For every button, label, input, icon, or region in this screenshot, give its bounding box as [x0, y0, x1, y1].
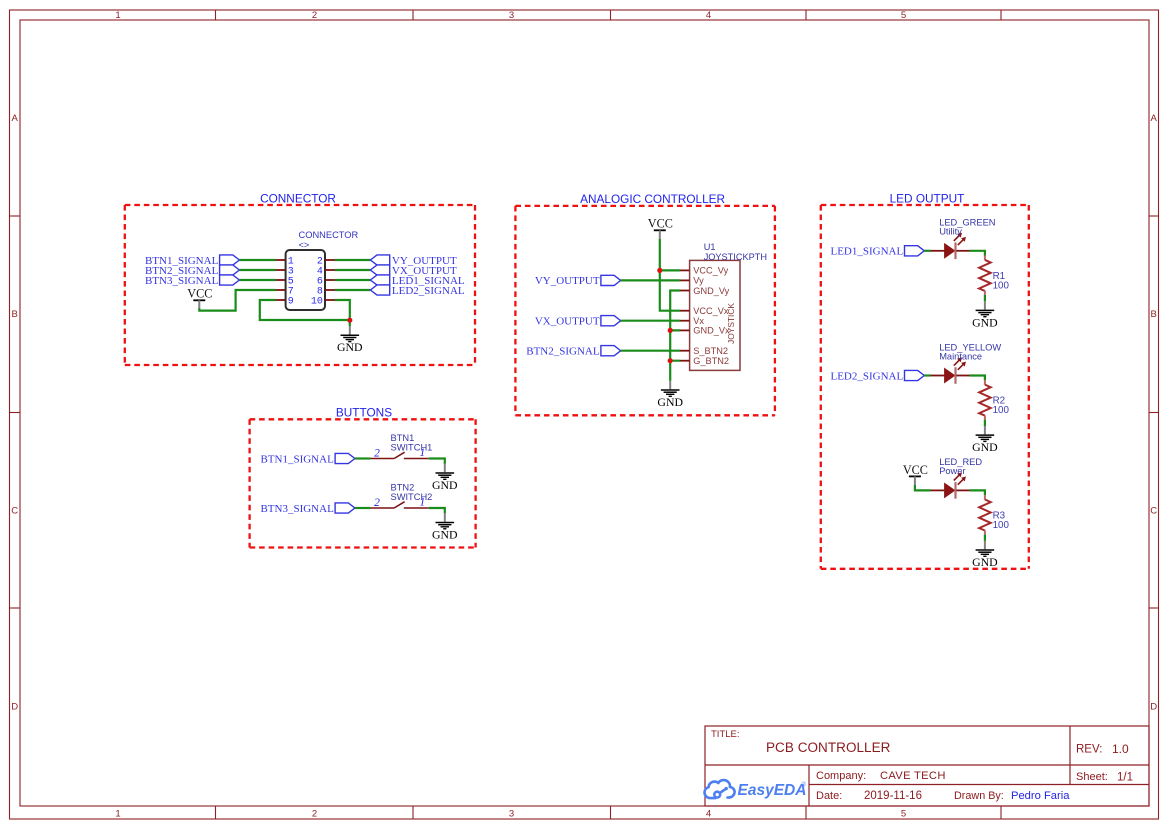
- svg-text:Vx: Vx: [693, 316, 704, 326]
- pin 1: [276, 257, 294, 268]
- power VCC (connector): [187, 287, 212, 309]
- svg-text:4: 4: [706, 809, 711, 820]
- svg-text:B: B: [1151, 309, 1157, 320]
- svg-text:1: 1: [115, 10, 120, 21]
- wire BTN3_SIGNAL to switch: [355, 507, 371, 509]
- svg-text:2019-11-16: 2019-11-16: [864, 790, 922, 802]
- svg-text:4: 4: [706, 10, 711, 21]
- wire LED to R3: [970, 490, 985, 495]
- wire switch to GND: [429, 508, 445, 513]
- svg-text:2: 2: [374, 448, 380, 460]
- svg-text:2: 2: [374, 497, 380, 509]
- svg-text:100: 100: [993, 280, 1010, 291]
- svg-text:BTN2_SIGNAL: BTN2_SIGNAL: [526, 346, 600, 358]
- svg-text:1: 1: [420, 496, 426, 508]
- section box ANALOGIC CONTROLLER: [515, 192, 775, 415]
- pin VCC_Vy: [680, 266, 729, 276]
- net flag LED2_SIGNAL: [370, 285, 464, 297]
- diode LED LED_RED: [931, 457, 983, 498]
- wire LED to R2: [970, 376, 985, 381]
- ground GND (connector): [337, 326, 363, 354]
- svg-text:GND_Vy: GND_Vy: [693, 286, 729, 296]
- svg-text:B: B: [12, 309, 18, 320]
- wire R1 to GND: [984, 295, 986, 301]
- resistor R1 100: [979, 256, 1009, 296]
- connector CONNECTOR 2x5 header: [286, 230, 359, 310]
- svg-text:BTN3_SIGNAL: BTN3_SIGNAL: [260, 503, 334, 515]
- junction: [347, 318, 352, 323]
- svg-text:1.0: 1.0: [1112, 742, 1129, 756]
- svg-text:3: 3: [509, 10, 514, 21]
- net flag BTN2_SIGNAL: [526, 346, 620, 358]
- svg-text:PCB CONTROLLER: PCB CONTROLLER: [766, 740, 891, 755]
- power VCC (analogic): [648, 217, 673, 239]
- wire BTN1_SIGNAL to switch: [355, 457, 371, 459]
- svg-text:ANALOGIC CONTROLLER: ANALOGIC CONTROLLER: [580, 192, 725, 206]
- svg-text:5: 5: [901, 809, 906, 820]
- junction VCC_Vy: [657, 268, 662, 273]
- wire BTN2_SIGNAL to pin: [239, 269, 275, 271]
- wire R3 to GND: [984, 535, 986, 541]
- wire R2 to GND: [984, 420, 986, 426]
- pin 9: [276, 297, 294, 308]
- svg-text:Vy: Vy: [693, 276, 704, 286]
- pin GND_Vx: [680, 326, 730, 336]
- pin Vx: [680, 316, 704, 326]
- section box BUTTONS: [250, 405, 476, 547]
- svg-text:<>: <>: [299, 240, 310, 250]
- svg-text:3: 3: [509, 809, 514, 820]
- svg-text:D: D: [1150, 702, 1157, 713]
- diode LED LED_YELLOW: [931, 342, 1002, 384]
- wire VY_OUTPUT: [621, 279, 680, 281]
- svg-text:U1: U1: [704, 242, 716, 252]
- ground GND (R2): [972, 426, 998, 454]
- svg-text:1/1: 1/1: [1117, 772, 1133, 784]
- svg-text:Utility: Utility: [939, 227, 962, 237]
- pin 2: [317, 257, 335, 268]
- section box LED OUTPUT: [821, 192, 1029, 569]
- svg-text:VCC_Vy: VCC_Vy: [693, 266, 728, 276]
- ground GND (button 2): [432, 513, 458, 541]
- pin 10: [311, 297, 335, 308]
- svg-text:D: D: [11, 702, 18, 713]
- net flag BTN3_SIGNAL: [260, 503, 354, 515]
- svg-text:2: 2: [312, 10, 317, 21]
- wire GND_Vy to GND rail: [670, 291, 680, 381]
- wire LED2_SIGNAL to LED: [924, 374, 930, 376]
- pin 4: [317, 267, 335, 278]
- net flag BTN3_SIGNAL: [145, 275, 239, 287]
- wire VCC to pin 7: [199, 290, 275, 311]
- wire pin to VY_OUTPUT: [335, 259, 370, 261]
- svg-text:LED1_SIGNAL: LED1_SIGNAL: [830, 246, 903, 258]
- svg-text:A: A: [12, 113, 19, 124]
- net flag LED1_SIGNAL: [830, 246, 924, 258]
- wire pin to LED1_SIGNAL: [335, 279, 370, 281]
- svg-text:JOYSTICKPTH: JOYSTICKPTH: [704, 252, 767, 262]
- wire pin to LED2_SIGNAL: [335, 289, 370, 291]
- ground GND (R3): [972, 541, 998, 569]
- svg-text:BUTTONS: BUTTONS: [336, 405, 392, 419]
- pin 7: [276, 287, 294, 298]
- wire pin to VX_OUTPUT: [335, 269, 370, 271]
- section box CONNECTOR: [125, 192, 475, 366]
- svg-text:SWITCH1: SWITCH1: [391, 443, 433, 453]
- ground GND (analogic): [657, 381, 683, 409]
- svg-text:BTN1: BTN1: [391, 433, 415, 443]
- svg-text:G_BTN2: G_BTN2: [693, 356, 729, 366]
- resistor R2 100: [979, 380, 1009, 420]
- svg-text:100: 100: [993, 405, 1010, 416]
- net flag VX_OUTPUT: [370, 265, 457, 277]
- net flag BTN1_SIGNAL: [260, 453, 354, 465]
- svg-text:Company:: Company:: [816, 770, 866, 782]
- svg-text:TITLE:: TITLE:: [711, 729, 740, 740]
- svg-text:VX_OUTPUT: VX_OUTPUT: [535, 316, 600, 328]
- svg-text:CONNECTOR: CONNECTOR: [260, 192, 336, 206]
- svg-text:Pedro Faria: Pedro Faria: [1011, 790, 1070, 802]
- wire BTN2_SIGNAL: [621, 350, 680, 352]
- wire BTN1_SIGNAL to pin: [239, 259, 275, 261]
- svg-text:REV:: REV:: [1076, 744, 1102, 756]
- junction G_BTN2: [668, 358, 673, 363]
- wire LED1_SIGNAL to LED: [924, 250, 930, 252]
- svg-text:2: 2: [312, 809, 317, 820]
- net flag BTN2_SIGNAL: [145, 265, 239, 277]
- wire pin 9 to GND: [260, 300, 350, 320]
- power VCC (led red): [903, 463, 928, 485]
- pin G_BTN2: [680, 356, 729, 366]
- svg-text:S_BTN2: S_BTN2: [693, 346, 728, 356]
- svg-text:C: C: [1150, 506, 1157, 517]
- wire BTN3_SIGNAL to pin: [239, 279, 275, 281]
- svg-text:A: A: [1151, 113, 1158, 124]
- svg-text:VY_OUTPUT: VY_OUTPUT: [535, 275, 600, 287]
- pin 8: [317, 287, 335, 298]
- pin 5: [276, 277, 294, 288]
- ground GND (R1): [972, 301, 998, 329]
- wire VX_OUTPUT: [621, 320, 680, 322]
- svg-text:CAVE TECH: CAVE TECH: [880, 770, 946, 782]
- net flag LED2_SIGNAL: [830, 370, 924, 382]
- net flag LED1_SIGNAL: [370, 275, 464, 287]
- pin VCC_Vx: [680, 306, 729, 316]
- svg-text:BTN2: BTN2: [391, 483, 415, 493]
- svg-text:5: 5: [901, 10, 906, 21]
- switch SWITCH2: [370, 483, 432, 510]
- svg-text:BTN3_SIGNAL: BTN3_SIGNAL: [145, 275, 219, 287]
- pin Vy: [680, 276, 704, 286]
- pin 3: [276, 267, 294, 278]
- svg-text:EasyEDA: EasyEDA: [738, 782, 807, 799]
- svg-text:CONNECTOR: CONNECTOR: [299, 230, 359, 240]
- svg-text:®: ®: [802, 782, 807, 789]
- svg-text:Power: Power: [939, 466, 965, 476]
- svg-text:LED2_SIGNAL: LED2_SIGNAL: [830, 370, 903, 382]
- svg-text:C: C: [11, 506, 18, 517]
- svg-text:VCC_Vx: VCC_Vx: [693, 306, 729, 316]
- IC U1 JOYSTICKPTH: [690, 242, 767, 370]
- svg-text:Maintance: Maintance: [939, 351, 982, 361]
- svg-text:GND_Vx: GND_Vx: [693, 326, 730, 336]
- switch SWITCH1: [370, 433, 432, 460]
- svg-text:LED OUTPUT: LED OUTPUT: [890, 192, 965, 206]
- resistor R3 100: [979, 495, 1009, 534]
- svg-text:1: 1: [420, 447, 426, 459]
- wire pin 10 to GND: [335, 300, 350, 326]
- ground GND (button 1): [432, 464, 458, 492]
- junction GND_Vx: [668, 328, 673, 333]
- net flag VX_OUTPUT: [535, 316, 621, 328]
- svg-text:9: 9: [288, 297, 294, 308]
- svg-text:LED2_SIGNAL: LED2_SIGNAL: [392, 285, 465, 297]
- svg-text:Date:: Date:: [816, 790, 842, 802]
- pin 6: [317, 277, 335, 288]
- wire VCC to VCC_Vy / VCC_Vx: [660, 239, 680, 311]
- wire VCC to LED: [915, 485, 931, 490]
- wire switch to GND: [429, 459, 445, 464]
- svg-text:100: 100: [993, 520, 1010, 531]
- pin S_BTN2: [680, 346, 728, 356]
- svg-text:SWITCH2: SWITCH2: [391, 492, 433, 502]
- net flag BTN1_SIGNAL: [145, 255, 239, 267]
- svg-text:1: 1: [115, 809, 120, 820]
- wire LED to R1: [970, 251, 985, 256]
- svg-text:10: 10: [311, 297, 323, 308]
- svg-text:Drawn By:: Drawn By:: [954, 790, 1004, 802]
- diode LED LED_GREEN: [931, 218, 996, 260]
- svg-text:Sheet:: Sheet:: [1076, 771, 1108, 783]
- net flag VY_OUTPUT: [535, 275, 621, 287]
- svg-text:BTN1_SIGNAL: BTN1_SIGNAL: [260, 453, 334, 465]
- net flag VY_OUTPUT: [370, 255, 457, 267]
- pin GND_Vy: [680, 286, 730, 296]
